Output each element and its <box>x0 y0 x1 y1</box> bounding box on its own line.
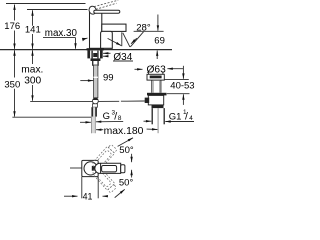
dim 141 <box>32 10 34 25</box>
dashed rotated levers <box>91 143 118 193</box>
svg-text:300: 300 <box>24 76 41 87</box>
dim 350 <box>14 50 16 77</box>
svg-text:69: 69 <box>154 35 165 46</box>
svg-text:141: 141 <box>25 25 41 36</box>
svg-text:176: 176 <box>4 21 20 32</box>
svg-text:350: 350 <box>4 79 20 90</box>
angle arrows top view <box>118 138 133 147</box>
dim 176 <box>14 5 16 21</box>
svg-text:50°: 50° <box>119 177 134 188</box>
rod horizontal line / max300 tick <box>30 100 92 102</box>
pop-up rod <box>94 65 98 98</box>
tick line lever top <box>27 9 88 11</box>
svg-text:/: / <box>114 111 117 123</box>
mounting hardware below counter <box>87 48 105 66</box>
top view <box>70 143 125 193</box>
hose fitting <box>92 104 97 107</box>
350 bottom tick <box>12 116 94 118</box>
dim texts left <box>4 21 77 90</box>
svg-text:28°: 28° <box>136 22 151 33</box>
svg-text:G1: G1 <box>169 111 182 122</box>
body slab <box>90 12 102 48</box>
41 dimension <box>81 177 83 199</box>
max.30 leader <box>43 37 76 39</box>
svg-text:41: 41 <box>83 191 93 200</box>
svg-text:4: 4 <box>189 115 193 122</box>
svg-text:99: 99 <box>103 73 114 84</box>
top reference line (max height) <box>6 3 86 5</box>
svg-text:Ø63: Ø63 <box>147 64 167 75</box>
faucet side view <box>88 0 126 48</box>
spout slab <box>102 24 126 31</box>
drain assembly <box>145 72 167 134</box>
svg-text:40-53: 40-53 <box>170 81 194 92</box>
base <box>101 31 113 48</box>
svg-text:Ø34: Ø34 <box>113 52 132 63</box>
svg-text:50°: 50° <box>119 145 134 156</box>
40-53 dimension <box>182 66 184 79</box>
69 dimension <box>157 15 159 31</box>
counter line <box>0 49 172 51</box>
svg-text:/: / <box>185 111 188 123</box>
svg-text:8: 8 <box>118 115 122 122</box>
svg-text:max.30: max.30 <box>45 28 78 39</box>
svg-text:G: G <box>103 111 110 122</box>
hose tube <box>91 117 95 134</box>
svg-text:max.: max. <box>21 64 43 75</box>
curl arrow at body left edge <box>83 38 88 41</box>
dim max300 <box>32 50 34 64</box>
ball joint <box>93 98 99 104</box>
lever <box>94 10 120 13</box>
svg-text:max.180: max.180 <box>104 126 144 137</box>
knob <box>88 5 97 15</box>
solid lever plan <box>95 163 121 173</box>
dashed raised lever <box>93 0 119 10</box>
